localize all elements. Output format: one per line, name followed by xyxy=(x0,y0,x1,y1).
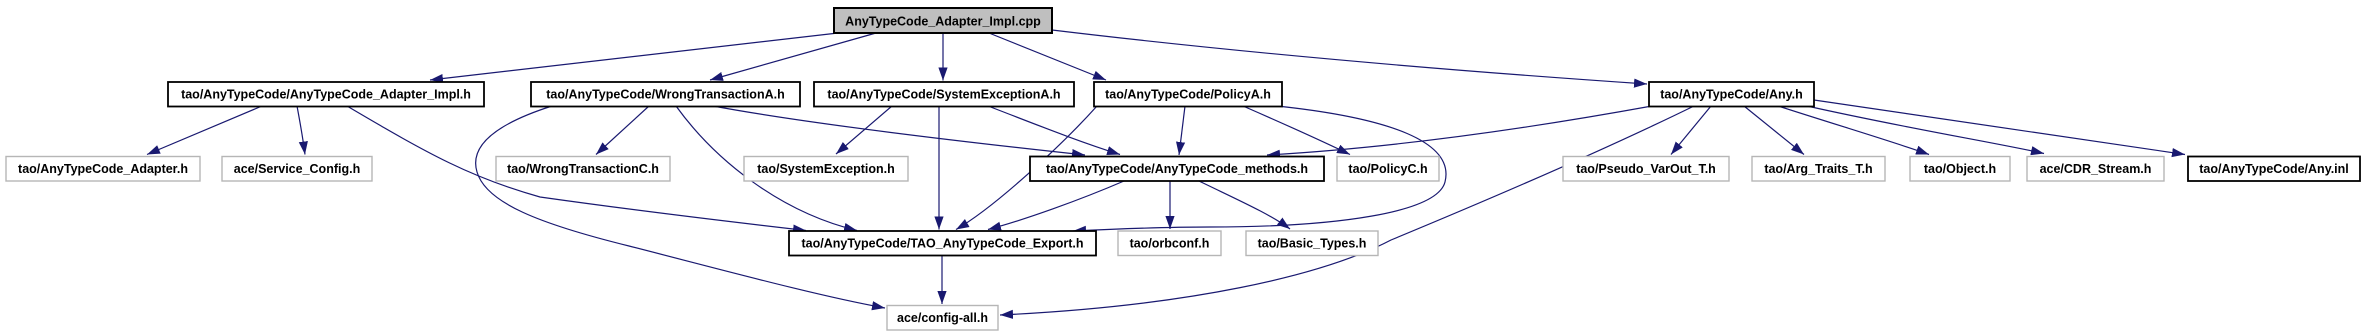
node ace/config-all.h xyxy=(887,306,998,331)
wire WrongTransactionA.h to TAO_AnyTypeCode_Export.h (steep) xyxy=(676,106,857,231)
wire PolicyA.h to PolicyC.h xyxy=(1243,106,1350,155)
node tao/Arg_Traits_T.h xyxy=(1752,157,1885,182)
svg-text:AnyTypeCode_Adapter_Impl.cpp: AnyTypeCode_Adapter_Impl.cpp xyxy=(845,15,1041,29)
svg-text:tao/PolicyC.h: tao/PolicyC.h xyxy=(1348,162,1427,176)
node tao/SystemException.h xyxy=(744,157,908,182)
svg-text:tao/Basic_Types.h: tao/Basic_Types.h xyxy=(1258,237,1367,251)
svg-text:tao/Pseudo_VarOut_T.h: tao/Pseudo_VarOut_T.h xyxy=(1576,162,1716,176)
wire Adapter_Impl.h to AnyTypeCode_Adapter.h xyxy=(147,106,262,155)
svg-text:tao/AnyTypeCode/Any.h: tao/AnyTypeCode/Any.h xyxy=(1660,88,1803,102)
wire Adapter_Impl.h to Service_Config.h xyxy=(297,106,305,155)
wire PolicyA.h to TAO_AnyTypeCode_Export.h (loop around PolicyC) xyxy=(1073,106,1446,231)
wire AnyTypeCode_methods.h to TAO_AnyTypeCode_Export.h xyxy=(988,181,1124,230)
wire SystemExceptionA.h to AnyTypeCode_methods.h xyxy=(988,106,1120,155)
node tao/PolicyC.h xyxy=(1337,157,1439,182)
wire SystemExceptionA.h to TAO_AnyTypeCode_Export.h xyxy=(938,106,940,230)
wire cpp to WrongTransactionA.h xyxy=(710,33,876,80)
svg-text:tao/WrongTransactionC.h: tao/WrongTransactionC.h xyxy=(507,162,659,176)
wire AnyTypeCode_methods.h to Basic_Types.h xyxy=(1199,181,1290,229)
wire Any.h to CDR_Stream.h xyxy=(1807,106,2044,154)
wire AnyTypeCode_methods.h to orbconf.h xyxy=(1169,181,1171,229)
node tao/Pseudo_VarOut_T.h xyxy=(1563,157,1729,182)
wire cpp to SystemExceptionA.h xyxy=(942,33,944,81)
wire WrongTransactionA.h to config-all.h (left loop) xyxy=(476,106,885,308)
wire cpp to Any.h xyxy=(1052,30,1647,84)
wire Any.h to config-all.h xyxy=(1000,106,1694,315)
svg-text:tao/AnyTypeCode/AnyTypeCode_me: tao/AnyTypeCode/AnyTypeCode_methods.h xyxy=(1046,162,1308,176)
svg-text:tao/Object.h: tao/Object.h xyxy=(1924,162,1996,176)
wire PolicyA.h to TAO_AnyTypeCode_Export.h xyxy=(956,106,1097,230)
wire Any.h to Arg_Traits_T.h xyxy=(1744,106,1804,155)
svg-text:ace/Service_Config.h: ace/Service_Config.h xyxy=(234,162,360,176)
svg-text:tao/AnyTypeCode/PolicyA.h: tao/AnyTypeCode/PolicyA.h xyxy=(1105,88,1271,102)
node tao/orbconf.h xyxy=(1118,231,1221,256)
svg-text:tao/AnyTypeCode_Adapter.h: tao/AnyTypeCode_Adapter.h xyxy=(18,162,188,176)
wire Any.h to Any.inl xyxy=(1814,100,2185,155)
svg-text:ace/CDR_Stream.h: ace/CDR_Stream.h xyxy=(2040,162,2152,176)
wire WrongTransactionA.h to AnyTypeCode_methods.h xyxy=(713,106,1085,155)
wire Any.h to AnyTypeCode_methods.h xyxy=(1267,106,1652,155)
svg-text:tao/AnyTypeCode/SystemExceptio: tao/AnyTypeCode/SystemExceptionA.h xyxy=(827,88,1060,102)
node tao/AnyTypeCode/TAO_AnyTypeCode_Export.h xyxy=(789,231,1096,256)
wire SystemExceptionA.h to SystemException.h xyxy=(836,106,892,154)
svg-text:tao/AnyTypeCode/AnyTypeCode_Ad: tao/AnyTypeCode/AnyTypeCode_Adapter_Impl… xyxy=(181,88,471,102)
node tao/Basic_Types.h xyxy=(1246,231,1378,256)
svg-text:ace/config-all.h: ace/config-all.h xyxy=(897,311,988,325)
svg-text:tao/AnyTypeCode/Any.inl: tao/AnyTypeCode/Any.inl xyxy=(2199,162,2349,176)
node tao/AnyTypeCode/SystemExceptionA.h xyxy=(814,82,1074,107)
svg-text:tao/AnyTypeCode/WrongTransacti: tao/AnyTypeCode/WrongTransactionA.h xyxy=(546,88,784,102)
wire PolicyA.h to AnyTypeCode_methods.h xyxy=(1179,106,1185,155)
node tao/AnyTypeCode/PolicyA.h xyxy=(1094,82,1282,107)
node tao/AnyTypeCode/AnyTypeCode_methods.h xyxy=(1030,157,1324,182)
node tao/AnyTypeCode/AnyTypeCode_Adapter_Impl.h xyxy=(168,82,484,107)
node ace/Service_Config.h xyxy=(222,157,372,182)
node tao/Object.h xyxy=(1910,157,2010,182)
wire WrongTransactionA.h to WrongTransactionC.h xyxy=(596,106,649,155)
node tao/WrongTransactionC.h xyxy=(496,157,670,182)
node tao/AnyTypeCode/Any.inl xyxy=(2188,157,2360,182)
wire Any.h to Object.h xyxy=(1778,106,1929,155)
svg-text:tao/SystemException.h: tao/SystemException.h xyxy=(757,162,895,176)
node tao/AnyTypeCode_Adapter.h xyxy=(6,157,200,182)
wire cpp to AnyTypeCode_Adapter_Impl.h xyxy=(430,33,838,80)
wire TAO_AnyTypeCode_Export.h to config-all.h xyxy=(941,256,943,304)
wire Adapter_Impl.h to TAO_AnyTypeCode_Export.h xyxy=(347,106,806,231)
svg-text:tao/AnyTypeCode/TAO_AnyTypeCod: tao/AnyTypeCode/TAO_AnyTypeCode_Export.h xyxy=(802,237,1084,251)
node AnyTypeCode_Adapter_Impl.cpp xyxy=(834,8,1052,33)
svg-text:tao/Arg_Traits_T.h: tao/Arg_Traits_T.h xyxy=(1764,162,1872,176)
node ace/CDR_Stream.h xyxy=(2027,157,2164,182)
wire Any.h to Pseudo_VarOut_T.h xyxy=(1671,106,1711,155)
wire cpp to PolicyA.h xyxy=(989,33,1106,80)
svg-text:tao/orbconf.h: tao/orbconf.h xyxy=(1130,237,1210,251)
node tao/AnyTypeCode/WrongTransactionA.h xyxy=(531,82,800,107)
node tao/AnyTypeCode/Any.h xyxy=(1649,82,1814,107)
